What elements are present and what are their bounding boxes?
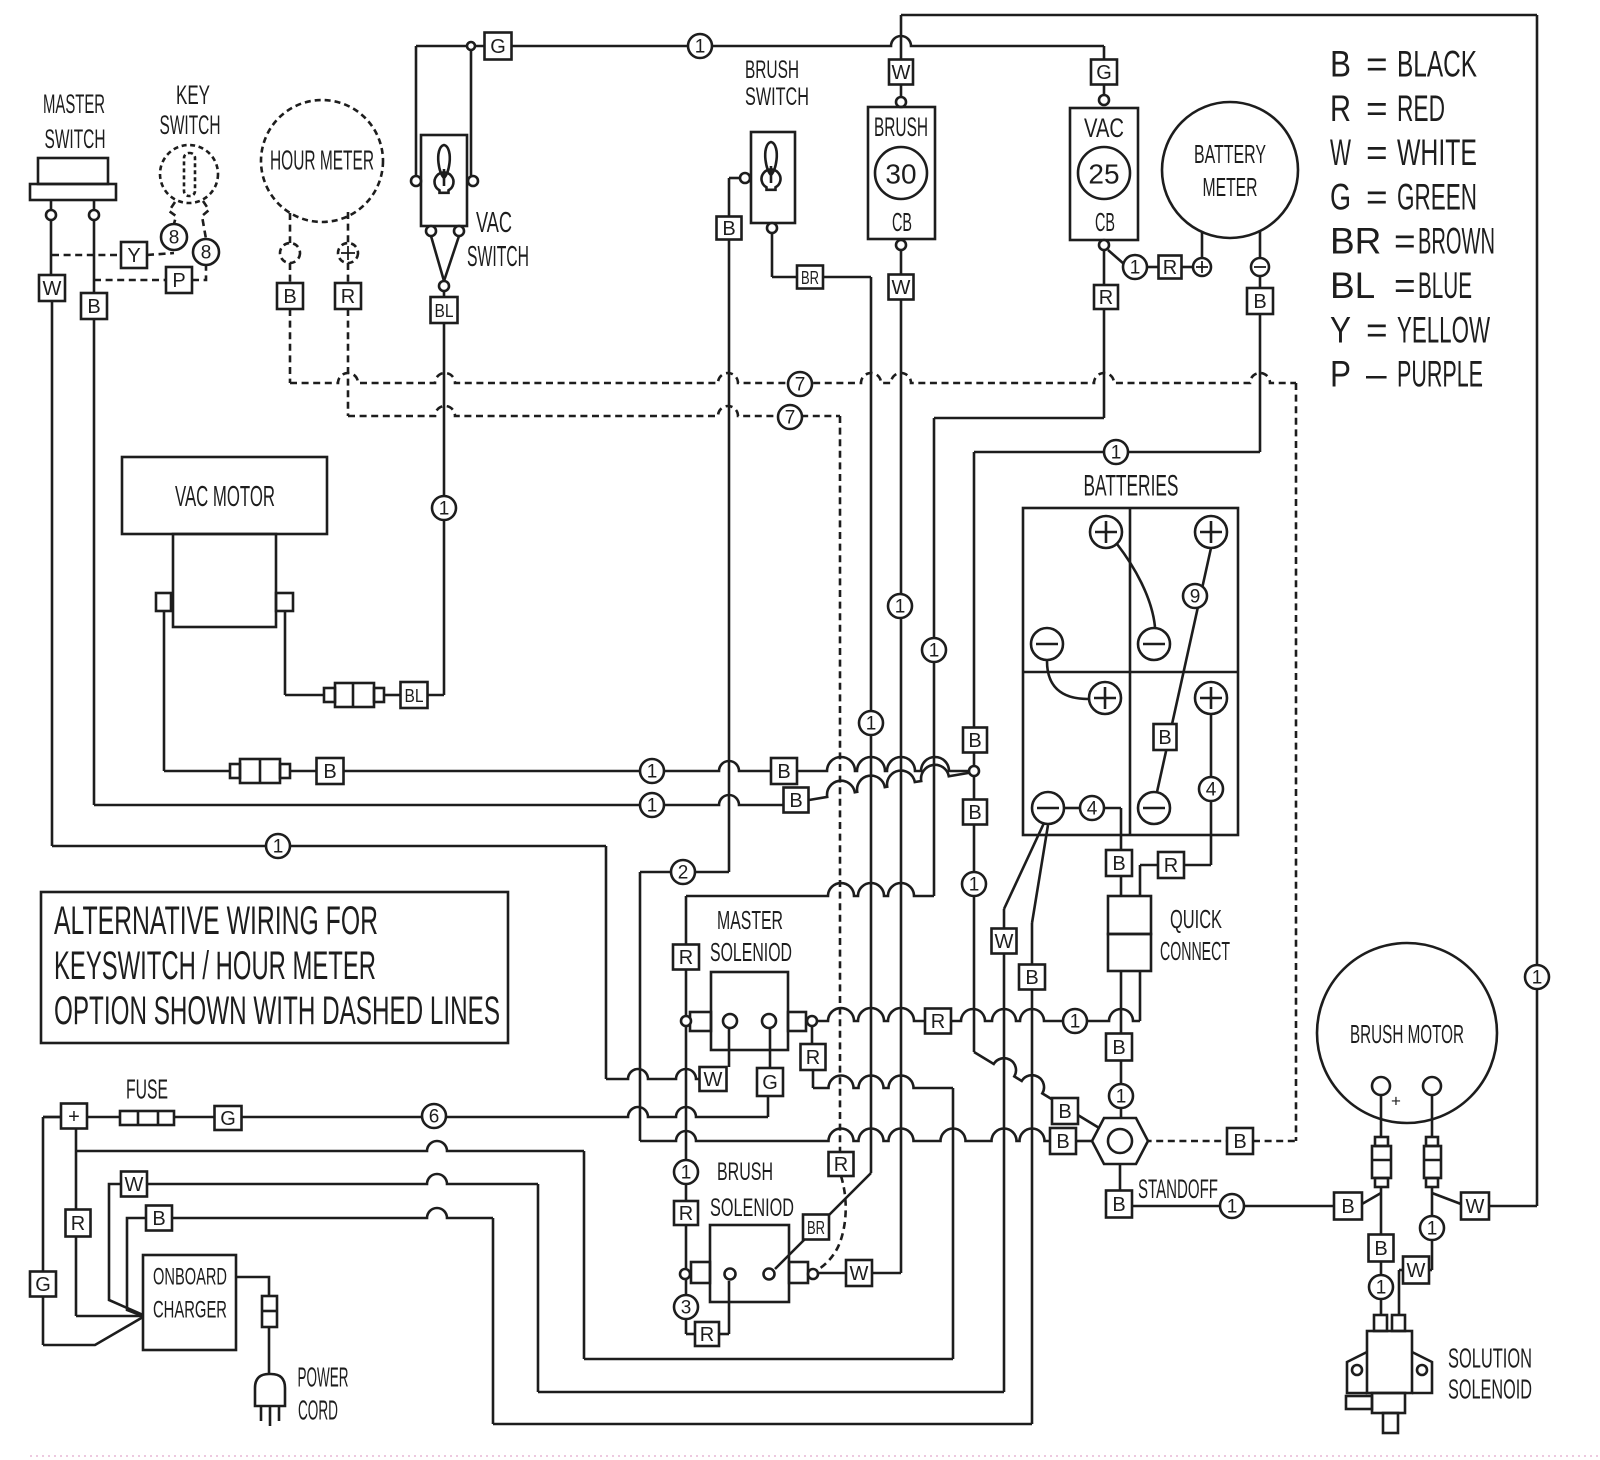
hour meter terminal <box>280 243 300 263</box>
svg-text:1: 1 <box>866 714 877 735</box>
wire: battery diagonal top-right plus to bottom-right minus <box>1157 548 1211 792</box>
wire: green wire into charger <box>43 1317 143 1345</box>
wire: black wire jog y=452 <box>974 451 1260 454</box>
wire: red wire y=1151 to charger <box>76 1141 584 1151</box>
wire label W master solenoid coil <box>700 1067 727 1091</box>
svg-text:R: R <box>71 1213 85 1235</box>
wire gauge 1 marker y=1021 <box>1063 1009 1087 1033</box>
svg-text:VAC MOTOR: VAC MOTOR <box>175 481 275 513</box>
battery 3 positive terminal <box>1089 682 1121 714</box>
svg-text:SOLUTION: SOLUTION <box>1448 1343 1532 1374</box>
svg-text:B: B <box>152 1208 165 1230</box>
wire label B above junction x=974 <box>963 728 987 753</box>
toggle lever brush switch <box>765 142 777 175</box>
wire label G master solenoid coil <box>757 1068 783 1096</box>
master solenoid coil terminal 1 <box>723 1014 737 1028</box>
wire: brush CB bottom white lead <box>900 250 903 274</box>
wire: vac motor blue lead to connector <box>285 694 324 697</box>
svg-text:QUICK: QUICK <box>1170 904 1222 934</box>
wire: standoff to B label below <box>1119 1165 1122 1191</box>
wire: white charger wire y=1184 <box>147 1174 538 1184</box>
svg-text:G: G <box>220 1108 236 1130</box>
wire label R master solenoid output <box>801 1044 826 1070</box>
svg-text:ALTERNATIVE WIRING FOR: ALTERNATIVE WIRING FOR <box>54 899 378 943</box>
svg-text:B: B <box>1056 1131 1069 1153</box>
svg-text:25: 25 <box>1088 159 1119 190</box>
svg-text:W: W <box>1466 1196 1485 1218</box>
standoff hexagon <box>1092 1118 1148 1164</box>
svg-text:BLACK: BLACK <box>1397 44 1477 85</box>
junction on green wire above vac switch <box>467 42 475 50</box>
svg-text:POWER: POWER <box>298 1362 349 1393</box>
dashed bus 7 upper <box>290 373 1296 383</box>
wire: quick connect to master solenoid red wire <box>1139 971 1142 1021</box>
wire: green wire below G label <box>767 1096 770 1117</box>
wire: black charge wire down x=1032 <box>1031 990 1034 1424</box>
wire label B on y=771 black wire <box>771 758 797 784</box>
svg-text:1: 1 <box>1227 1197 1238 1218</box>
svg-text:G: G <box>35 1274 51 1296</box>
wire label W below brush CB <box>889 275 914 300</box>
svg-text:=: = <box>1366 309 1388 350</box>
wire gauge 1 marker x=686 <box>674 1160 698 1184</box>
vac switch output node <box>439 281 449 291</box>
svg-text:8: 8 <box>201 243 212 264</box>
wire label B brush motor <box>1334 1193 1362 1220</box>
svg-text:R: R <box>1099 287 1113 309</box>
wire gauge 1 marker white wire x=901 <box>888 594 912 618</box>
svg-text:B: B <box>1112 1037 1125 1059</box>
svg-text:P: P <box>1330 354 1351 395</box>
wire gauge 4 marker red battery lead <box>1199 777 1223 801</box>
wire label B brush switch <box>717 217 742 240</box>
power cord connector <box>262 1296 277 1327</box>
svg-text:CONNECT: CONNECT <box>1160 936 1230 966</box>
svg-text:R: R <box>341 286 355 308</box>
dashed black wire to bus <box>289 309 292 383</box>
wire: red wire y=1088 <box>813 1076 953 1089</box>
svg-text:FUSE: FUSE <box>126 1074 168 1105</box>
wire: white wire below right connector <box>1431 1187 1434 1216</box>
svg-text:W: W <box>704 1069 723 1091</box>
wire gauge 7 marker lower bus <box>778 405 802 429</box>
battery 4 positive terminal <box>1195 682 1227 714</box>
wire: right side white wire down to brush motor W <box>1536 15 1539 965</box>
svg-text:MASTER: MASTER <box>717 905 783 935</box>
svg-text:1: 1 <box>1376 1278 1387 1299</box>
svg-text:B: B <box>87 296 100 318</box>
wire: green fuse wire y=1117 <box>242 1107 768 1117</box>
solution solenoid inlet <box>1346 1396 1372 1409</box>
wire label B dashed wire at standoff <box>1227 1128 1253 1154</box>
wire gauge 1 marker on green wire <box>688 34 712 58</box>
wire: black wire below motor connector <box>1380 1187 1383 1235</box>
svg-text:=: = <box>1366 44 1388 85</box>
wire: black wire down x=974 <box>973 452 976 727</box>
svg-text:B: B <box>1158 727 1171 749</box>
wire label B battery to quick connect <box>1106 850 1132 876</box>
svg-text:VAC: VAC <box>476 207 512 239</box>
hour meter positive terminal <box>338 243 358 263</box>
plug prong 3 <box>278 1406 281 1421</box>
wire gauge 1 marker on right white wire <box>1525 965 1549 989</box>
wire: master switch white wire down <box>51 301 54 846</box>
mounting hole left <box>1352 1365 1362 1375</box>
wire label B below junction x=974 <box>963 800 987 825</box>
svg-text:W: W <box>1330 132 1351 173</box>
master solenoid left tab <box>690 1012 711 1031</box>
wire: master solenoid coil white lead <box>728 1028 731 1067</box>
wire: vac CB to battery meter red jumper <box>1108 250 1124 264</box>
svg-text:WHITE: WHITE <box>1397 132 1477 173</box>
wire: red battery lead to R label <box>1184 864 1211 867</box>
wire: bottom-left minus lead <box>1064 807 1079 810</box>
wire: fork to W label right <box>1432 1193 1461 1204</box>
dashed lead hour meter red <box>347 212 350 243</box>
wire label BL vac switch <box>431 297 458 323</box>
svg-text:B: B <box>1233 1131 1246 1153</box>
wire: connector to BL label <box>384 694 400 697</box>
wire: BL label to vac switch wire <box>427 694 444 697</box>
wire label R charger <box>66 1210 91 1237</box>
svg-text:CHARGER: CHARGER <box>153 1297 227 1324</box>
wire label G charger <box>30 1272 56 1297</box>
svg-text:BR: BR <box>1330 221 1381 262</box>
battery meter M2 <box>1162 102 1298 238</box>
wire: connector to B label <box>290 770 316 773</box>
vac motor left tab <box>156 593 171 611</box>
svg-text:=: = <box>1394 265 1416 306</box>
wire: red wire down x=1104 <box>1103 309 1106 418</box>
wire gauge 1 marker blue wire <box>432 496 456 520</box>
svg-text:BRUSH: BRUSH <box>745 56 799 84</box>
svg-text:SWITCH: SWITCH <box>160 110 221 140</box>
inline connector motor negative <box>1426 1137 1438 1146</box>
wire: white wire W label to right riser <box>1489 1205 1537 1208</box>
wire: brown wire down x=871 <box>870 277 873 1173</box>
svg-text:W: W <box>892 277 911 299</box>
vac motor right tab <box>276 593 293 611</box>
svg-text:MASTER: MASTER <box>43 89 105 119</box>
svg-text:VAC: VAC <box>1084 113 1124 143</box>
wire label G top <box>485 33 512 60</box>
power cord plug P1 <box>255 1374 285 1406</box>
wire: black wire down x=640 <box>639 872 642 1141</box>
svg-text:BRUSH: BRUSH <box>874 112 928 142</box>
wire: black wire standoff to brush motor <box>1132 1205 1334 1208</box>
svg-text:Y: Y <box>1330 309 1351 350</box>
svg-text:SOLENIOD: SOLENIOD <box>710 937 792 967</box>
svg-text:B: B <box>1253 291 1266 313</box>
svg-text:1: 1 <box>695 37 706 58</box>
battery 1 positive terminal <box>1090 516 1122 548</box>
svg-text:1: 1 <box>439 499 450 520</box>
svg-text:B: B <box>968 802 981 824</box>
brush CB bottom terminal <box>896 240 906 250</box>
wire: battery jumper top-left minus to bottom-left plus <box>1047 661 1088 699</box>
svg-text:B: B <box>1112 853 1125 875</box>
battery box divider vertical <box>1129 508 1132 835</box>
wire gauge 1 marker motor black wire <box>1369 1275 1393 1299</box>
svg-text:BLUE: BLUE <box>1418 265 1472 306</box>
battery meter positive terminal <box>1193 258 1211 276</box>
brush motor M4 <box>1317 943 1497 1123</box>
wire: red wire bottom run y=1359 <box>584 1358 953 1361</box>
onboard charger PS1 <box>143 1255 236 1350</box>
wire label W to solution solenoid <box>1403 1257 1429 1284</box>
svg-text:SWITCH: SWITCH <box>467 241 529 273</box>
wire label B hour meter <box>277 283 303 309</box>
svg-text:1: 1 <box>647 796 658 817</box>
svg-text:W: W <box>995 931 1014 953</box>
wire label R below vac CB <box>1094 285 1118 309</box>
svg-text:BL: BL <box>405 686 424 706</box>
svg-text:=: = <box>1394 221 1416 262</box>
svg-text:B: B <box>777 761 790 783</box>
wire label P <box>166 267 192 293</box>
svg-text:B: B <box>789 790 802 812</box>
wire: red wire up x=584 <box>583 1151 586 1359</box>
svg-text:R: R <box>679 947 693 969</box>
battery 2 negative terminal <box>1138 628 1170 660</box>
svg-text:BATTERIES: BATTERIES <box>1084 470 1179 503</box>
wire: white wire vertical x=606 <box>605 846 608 1079</box>
wire gauge 8 marker key switch <box>161 224 187 250</box>
svg-text:6: 6 <box>429 1107 440 1128</box>
wire: black wire sloped run to junction <box>809 765 974 800</box>
wire: black wire y=1141 to standoff <box>640 1131 810 1141</box>
wire: brush solenoid right terminal to W label <box>818 1272 846 1275</box>
dashed lead hour meter black <box>289 213 292 243</box>
svg-text:BR: BR <box>801 268 819 288</box>
wire label W master switch <box>39 275 65 301</box>
wire label W above brush CB <box>889 60 913 85</box>
wire label R power wire <box>925 1009 951 1034</box>
wire: W label to solution solenoid <box>1399 1269 1403 1272</box>
fuse symbol <box>120 1111 174 1125</box>
wire: black wire jog y=872 <box>640 871 729 874</box>
wire: top white wire from brush CB to right side <box>901 14 1537 17</box>
svg-text:B: B <box>1374 1238 1387 1260</box>
wire: master switch black wire down <box>93 319 96 805</box>
wire gauge 1 marker y=1206 <box>1220 1194 1244 1218</box>
svg-text:BR: BR <box>807 1218 825 1238</box>
wire: red wire down x=953 <box>952 1088 955 1359</box>
wire: red wire y=896 to master solenoid <box>686 883 934 896</box>
svg-text:KEYSWITCH / HOUR METER: KEYSWITCH / HOUR METER <box>54 944 376 988</box>
svg-text:B: B <box>968 730 981 752</box>
solution solenoid body <box>1367 1331 1412 1393</box>
solution solenoid outlet <box>1383 1413 1398 1433</box>
solution solenoid left flange <box>1347 1352 1367 1393</box>
wire: white charge wire down x=1004 <box>1003 954 1006 1392</box>
wire: white wire into brush solenoid W box <box>872 1272 901 1275</box>
wire label B master switch <box>81 293 107 319</box>
wire gauge 1 marker x=974 <box>962 872 986 896</box>
dashed yellow wire <box>52 254 121 257</box>
wire: black wire y=771 to junction <box>343 761 815 771</box>
wire: black wire into charger <box>127 1218 146 1316</box>
svg-text:SOLENOID: SOLENOID <box>1448 1374 1532 1405</box>
inline connector blue wire <box>324 688 335 702</box>
wire: white wire down x=901 <box>900 299 903 1273</box>
wire label Y <box>121 242 147 268</box>
battery meter negative terminal <box>1251 258 1269 276</box>
vac switch bottom terminal 1 <box>426 226 436 236</box>
wire: vac switch feed verticals <box>415 46 418 176</box>
svg-text:G: G <box>1096 62 1112 84</box>
wire label R meter jumper <box>1159 256 1182 279</box>
battery 3 negative terminal <box>1032 792 1064 824</box>
svg-text:HOUR METER: HOUR METER <box>270 145 374 176</box>
dashed red wire to bus <box>347 309 350 416</box>
wire: black charger wire down x=493 <box>492 1218 495 1424</box>
wire: red wire from solenoid R label down <box>812 1070 815 1088</box>
wire: master solenoid right terminal to R label below <box>811 1026 814 1044</box>
solution solenoid right flange <box>1412 1352 1432 1393</box>
wire label B charger <box>146 1206 172 1231</box>
wire label G fuse wire <box>215 1106 242 1130</box>
vac motor body <box>173 534 276 627</box>
svg-text:1: 1 <box>929 641 940 662</box>
svg-text:W: W <box>43 278 62 300</box>
svg-text:STANDOFF: STANDOFF <box>1138 1174 1218 1204</box>
svg-text:SOLENIOD: SOLENIOD <box>710 1194 794 1222</box>
wire: white charger wire bottom y=1392 <box>538 1391 1004 1394</box>
wire gauge 2 marker <box>671 860 695 884</box>
brush solenoid coil terminal 2 <box>764 1269 775 1280</box>
wire: master solenoid coil green lead <box>769 1028 772 1068</box>
svg-text:1: 1 <box>1116 1087 1127 1108</box>
wire: brush CB top white lead <box>900 15 903 60</box>
wire: quick connect to standoff black wire <box>1120 971 1123 1034</box>
wire label W battery charge wire <box>992 929 1017 954</box>
wire label BL vac motor <box>401 682 428 708</box>
wire label B black wire into standoff <box>1050 1128 1076 1154</box>
svg-text:G: G <box>762 1072 778 1094</box>
wire: green wire from plus to charger <box>43 1116 61 1119</box>
svg-text:2: 2 <box>678 863 689 884</box>
svg-text:BATTERY: BATTERY <box>1194 139 1266 169</box>
battery 2 positive terminal <box>1195 516 1227 548</box>
wire label W brush solenoid <box>846 1260 872 1286</box>
svg-text:+: + <box>1391 1092 1401 1111</box>
wire label G above vac CB <box>1091 60 1117 85</box>
svg-text:1: 1 <box>647 762 658 783</box>
svg-text:RED: RED <box>1397 88 1445 129</box>
wire: battery jumper top-left plus to top-right minus <box>1117 544 1155 627</box>
svg-text:GREEN: GREEN <box>1397 176 1477 217</box>
brush CB top terminal <box>896 97 906 107</box>
master solenoid left terminal <box>681 1016 691 1026</box>
svg-text:BROWN: BROWN <box>1418 221 1495 262</box>
svg-text:B: B <box>1112 1194 1125 1216</box>
dashed wire down x=840 <box>839 416 842 1152</box>
wire label B below standoff <box>1106 1191 1132 1218</box>
svg-text:–: – <box>1366 354 1387 395</box>
svg-text:1: 1 <box>1427 1219 1438 1240</box>
svg-text:1: 1 <box>681 1163 692 1184</box>
dashed wire from standoff right <box>1133 1140 1227 1143</box>
wire: battery minus to black charge lead diagonal <box>1032 825 1048 923</box>
svg-text:P: P <box>172 270 185 292</box>
wire: connector to plug <box>268 1327 271 1373</box>
wire gauge 1 marker black wire <box>640 793 664 817</box>
wire: green wire vac switch to G label and vac CB <box>416 45 688 48</box>
junction node black wires <box>969 766 979 776</box>
svg-text:=: = <box>1366 176 1388 217</box>
wire: white wire into charger <box>109 1184 143 1315</box>
wire: black wire diagonal to standoff <box>974 1052 1114 1137</box>
svg-text:8: 8 <box>169 228 180 249</box>
wire gauge 4 marker black battery lead <box>1080 796 1104 820</box>
svg-text:R: R <box>700 1324 714 1346</box>
wire: red wire jog y=418 <box>934 417 1104 420</box>
battery box divider horizontal <box>1023 671 1238 674</box>
wire: vac CB bottom red lead <box>1103 250 1106 285</box>
wire gauge 1 marker brown wire <box>859 711 883 735</box>
wire: R label to brush solenoid coil <box>719 1333 729 1336</box>
svg-text:B: B <box>1025 967 1038 989</box>
svg-text:CB: CB <box>1095 207 1115 237</box>
toggle lever vac switch <box>438 145 450 178</box>
brush solenoid coil terminal 1 <box>725 1269 736 1280</box>
wire label B battery meter <box>1247 288 1273 314</box>
wire: brush motor positive lead <box>1380 1095 1383 1137</box>
quick connect J1 <box>1108 896 1151 934</box>
battery 4 negative terminal <box>1138 792 1170 824</box>
wire gauge 8 marker key switch 2 <box>193 239 219 265</box>
wire: vac motor blue lead down <box>284 611 287 695</box>
wire: vac motor black lead down <box>163 611 166 771</box>
solution solenoid terminal 2 <box>1392 1315 1405 1331</box>
wire: black wire from meter down x=1260 <box>1259 314 1262 452</box>
wire: black charger wire bottom y=1424 <box>493 1423 1032 1426</box>
svg-text:B: B <box>722 218 735 240</box>
dashed wire: brown-red option into brush solenoid terminal <box>816 1176 846 1271</box>
dashed wire down x=1296 <box>1295 383 1298 1141</box>
svg-text:7: 7 <box>795 375 806 396</box>
svg-text:=: = <box>1366 88 1388 129</box>
svg-text:BL: BL <box>1330 265 1375 306</box>
svg-text:4: 4 <box>1206 780 1217 801</box>
wire: vac motor black lead to connector <box>164 770 230 773</box>
svg-text:1: 1 <box>1111 443 1122 464</box>
wire gauge 9 marker battery jumper <box>1183 584 1207 608</box>
svg-text:BL: BL <box>435 301 454 321</box>
vac switch left terminal <box>411 176 421 186</box>
svg-text:OPTION SHOWN WITH DASHED LINES: OPTION SHOWN WITH DASHED LINES <box>54 989 500 1033</box>
dashed lead key switch left <box>169 202 176 224</box>
brush switch bottom terminal <box>767 223 777 233</box>
svg-text:SWITCH: SWITCH <box>745 83 809 111</box>
svg-text:3: 3 <box>681 1298 692 1319</box>
svg-text:30: 30 <box>885 159 916 190</box>
wire gauge 7 marker upper bus <box>788 372 812 396</box>
solution solenoid valve <box>1372 1393 1405 1413</box>
wire label W brush motor <box>1461 1193 1489 1220</box>
wire label R battery to quick connect <box>1158 852 1184 878</box>
wire: fork to B label left <box>1362 1193 1381 1204</box>
plug prong 2 <box>269 1406 272 1426</box>
svg-text:W: W <box>892 62 911 84</box>
svg-text:B: B <box>1058 1101 1071 1123</box>
wire label R dashed option wire <box>829 1152 854 1176</box>
wire: blue wire from vac switch down <box>443 323 446 695</box>
vac motor M3 <box>122 457 327 534</box>
vac switch right terminal <box>468 176 478 186</box>
wire: black wire horizontal run y=805 <box>94 795 784 805</box>
